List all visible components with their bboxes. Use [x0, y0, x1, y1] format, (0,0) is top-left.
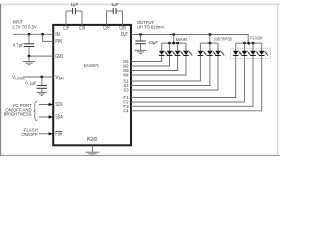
- svg-text:IN: IN: [55, 32, 60, 38]
- capacitor C1 1uF: [66, 8, 82, 14]
- wire F1 cathode return: [131, 56, 236, 98]
- ground symbol PGND: [86, 145, 100, 155]
- capacitor C2 value label 1uF: [111, 2, 119, 7]
- wire OUT rail: [131, 35, 248, 44]
- junction SUB bus feed: [209, 42, 212, 45]
- ground symbol output cap: [134, 44, 146, 54]
- pin label PIN: [55, 39, 62, 45]
- IC U1 MAX8879 body: [53, 25, 131, 145]
- svg-text:10µF: 10µF: [148, 40, 158, 45]
- LED D6 sub anode stub: [209, 43, 211, 51]
- I2C control annotation text: [4, 103, 32, 117]
- pin label M3: [123, 68, 129, 73]
- IC U1 part number label MAX8879: [84, 63, 99, 69]
- pin label F4: [123, 108, 129, 113]
- pin label OUT: [121, 32, 128, 38]
- svg-text:BRIGHTNESS: BRIGHTNESS: [4, 112, 32, 117]
- pin C1P stub wire: [65, 11, 67, 25]
- ground symbol VLOGIC cap: [37, 88, 47, 95]
- pin C1N stub wire: [81, 11, 83, 25]
- capacitor C5 value label 10uF: [148, 40, 158, 45]
- FLASH ON/OFF annotation text: [21, 128, 38, 137]
- pin label M4: [123, 73, 129, 78]
- LED D9 flash: [242, 51, 252, 56]
- svg-text:MAX8879: MAX8879: [84, 63, 99, 69]
- LED D2 main: [167, 51, 177, 56]
- svg-text:S3: S3: [123, 88, 129, 93]
- junction OUT rail and SUB feed: [209, 33, 212, 36]
- LED D5 sub: [198, 51, 208, 56]
- svg-text:C1P: C1P: [63, 26, 70, 32]
- group label SUB OR RGB: [214, 36, 232, 41]
- svg-text:C2N: C2N: [119, 26, 126, 32]
- wire M3 cathode return: [131, 56, 178, 71]
- junction FLASH bus LED3: [252, 42, 255, 45]
- capacitor C2 1uF: [107, 8, 123, 14]
- svg-text:PIN: PIN: [55, 39, 62, 45]
- svg-text:C2P: C2P: [103, 26, 110, 32]
- wire FLASH anode bus: [236, 42, 262, 44]
- svg-text:FSR: FSR: [55, 132, 62, 138]
- capacitor C5 10uF: [135, 35, 145, 44]
- pin label M1: [123, 59, 129, 64]
- pin label M2: [123, 64, 129, 69]
- wire FSR with arrow: [39, 132, 53, 135]
- wire PIN branch: [43, 34, 54, 41]
- wire input rail to IN pin: [13, 33, 53, 35]
- svg-text:FLASH: FLASH: [250, 36, 262, 41]
- wire SUB anode bus: [200, 42, 218, 44]
- node INPUT label: [12, 19, 36, 29]
- LED D2 main anode stub: [169, 43, 171, 51]
- node VLOGIC label: [12, 75, 26, 81]
- wire SDA with arrow: [39, 115, 53, 118]
- svg-text:VLOGIC: VLOGIC: [12, 75, 26, 81]
- svg-text:ON/OFF: ON/OFF: [21, 132, 38, 137]
- capacitor C3 4.7uF: [24, 34, 34, 56]
- pin label SCK: [55, 102, 63, 108]
- LED D6 sub: [207, 51, 217, 56]
- LED D10 flash: [250, 51, 260, 56]
- wire S3 cathode return: [131, 56, 218, 90]
- pin label F3: [123, 104, 129, 109]
- junction MAIN bus LED2: [168, 42, 171, 45]
- svg-text:M4: M4: [123, 73, 129, 78]
- pin label S3: [123, 88, 129, 93]
- LED D7 sub anode stub: [217, 43, 219, 51]
- capacitor C4 0.1uF: [37, 77, 47, 88]
- svg-text:SDA: SDA: [55, 115, 63, 121]
- wire M2 cathode return: [131, 56, 170, 66]
- svg-text:1µF: 1µF: [111, 2, 119, 7]
- pin label PGND: [87, 137, 98, 143]
- ground symbol input: [23, 56, 35, 65]
- brace for I2C signals: [34, 101, 38, 121]
- svg-text:4.7µF: 4.7µF: [13, 42, 25, 47]
- LED D1 main anode stub: [161, 43, 163, 51]
- svg-text:VDD: VDD: [55, 75, 64, 81]
- junction OUT rail and MAIN feed: [172, 33, 175, 36]
- pin label C2N: [119, 26, 126, 32]
- svg-text:UP TO 610mA: UP TO 610mA: [137, 24, 164, 29]
- svg-text:F4: F4: [123, 108, 129, 113]
- flash LED dashed enclosure: [230, 48, 270, 58]
- wire F4 cathode return: [131, 56, 262, 111]
- wire SCK with arrow: [39, 103, 53, 106]
- LED D3 main anode stub: [177, 43, 179, 51]
- svg-text:OUT: OUT: [121, 32, 128, 38]
- junction input rail and C3: [28, 33, 31, 36]
- svg-text:GND: GND: [55, 54, 63, 60]
- capacitor C4 value label 0.1uF: [25, 80, 37, 85]
- svg-text:MAIN: MAIN: [176, 37, 187, 42]
- svg-text:PGND: PGND: [87, 137, 98, 143]
- pin label C1N: [79, 26, 86, 32]
- group label FLASH: [250, 36, 262, 41]
- wire M4 cathode return: [131, 56, 186, 75]
- wire to GND pin: [29, 55, 53, 57]
- wire M1 cathode return: [131, 56, 162, 62]
- svg-text:0.1µF: 0.1µF: [25, 80, 37, 85]
- wire VLOGIC to VDD pin: [23, 76, 53, 78]
- pin label F1: [123, 95, 129, 100]
- pin label GND: [55, 54, 63, 60]
- LED D7 sub: [215, 51, 225, 56]
- junction input rail and PIN branch: [41, 33, 44, 36]
- pin C2N stub wire: [122, 11, 124, 25]
- capacitor C1 value label 1uF: [70, 2, 78, 7]
- LED D1 main: [159, 51, 169, 56]
- svg-text:C1N: C1N: [79, 26, 86, 32]
- junction MAIN bus LED3: [176, 42, 179, 45]
- junction C3 and GND wire: [28, 55, 31, 58]
- svg-text:2.7V TO 5.5V: 2.7V TO 5.5V: [12, 24, 36, 29]
- LED D4 main: [183, 51, 193, 56]
- LED D10 flash anode stub: [252, 43, 254, 51]
- wire S2 cathode return: [131, 56, 210, 86]
- wire F3 cathode return: [131, 56, 253, 106]
- LED D11 flash anode stub: [261, 43, 263, 51]
- svg-text:SUB OR RGB: SUB OR RGB: [214, 36, 232, 41]
- wire MAIN feed: [173, 35, 175, 44]
- pin label S2: [123, 83, 129, 88]
- LED D8 flash anode stub: [235, 43, 237, 51]
- junction FLASH bus LED2: [243, 42, 246, 45]
- wire MAIN anode bus: [162, 42, 186, 44]
- pin label F2: [123, 100, 129, 105]
- junction MAIN bus feed: [172, 42, 175, 45]
- pin label VDD: [55, 75, 64, 81]
- pin label C1P: [63, 26, 70, 32]
- pin label S1: [123, 79, 129, 84]
- group label MAIN: [176, 37, 187, 42]
- pin label SDA: [55, 115, 63, 121]
- LED D3 main: [175, 51, 185, 56]
- junction OUT rail and C5: [139, 33, 142, 36]
- LED D9 flash anode stub: [243, 43, 245, 51]
- wire SUB feed: [209, 35, 211, 44]
- svg-text:SCK: SCK: [55, 102, 63, 108]
- wire F2 cathode return: [131, 56, 244, 102]
- pin label C2P: [103, 26, 110, 32]
- capacitor C3 value label 4.7uF: [13, 42, 25, 47]
- LED D5 sub anode stub: [199, 43, 201, 51]
- svg-text:1µF: 1µF: [70, 2, 78, 7]
- LED D4 main anode stub: [185, 43, 187, 51]
- junction FLASH bus feed: [247, 42, 250, 45]
- node OUTPUT label: [137, 20, 164, 29]
- LED D8 flash: [233, 51, 243, 56]
- pin label FSR with overline: [55, 131, 62, 137]
- pin label IN: [55, 32, 60, 38]
- junction VLOGIC and C4: [40, 76, 43, 79]
- pin C2P stub wire: [106, 11, 108, 25]
- wire S1 cathode return: [131, 56, 200, 81]
- LED D11 flash: [259, 51, 269, 56]
